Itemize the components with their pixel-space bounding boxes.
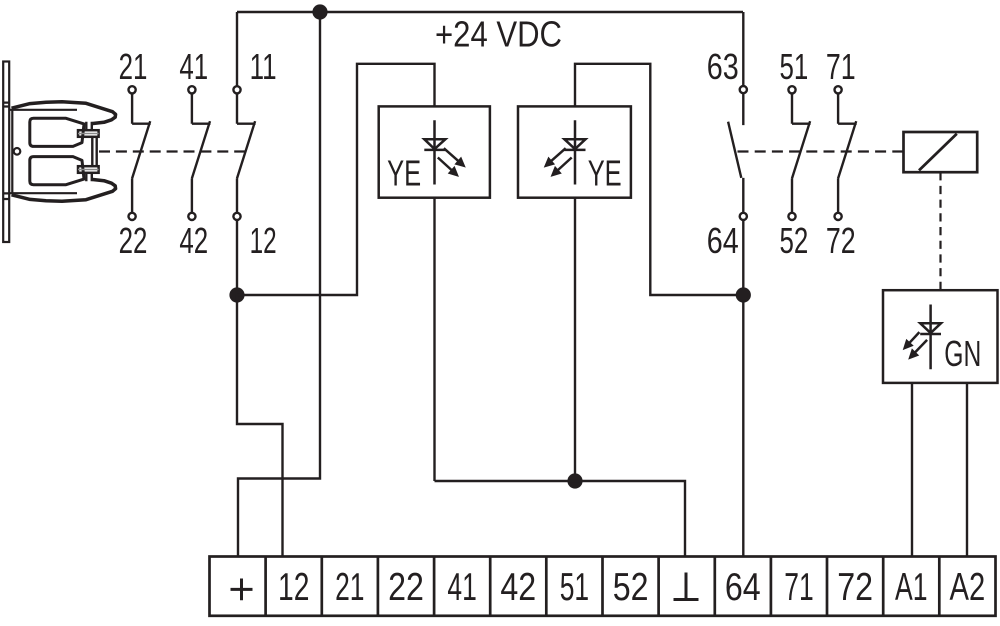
node below 64	[736, 287, 751, 302]
actuator mounting plate	[3, 62, 9, 243]
LED box YE2	[518, 106, 631, 197]
wire node to terminal 12	[237, 295, 283, 557]
contact 11-12	[233, 86, 255, 220]
wire contact 12 to node	[236, 220, 238, 295]
svg-text:42: 42	[179, 220, 208, 261]
node ground junction	[567, 473, 582, 488]
wire GN to terminal A2	[966, 383, 968, 557]
contact 63-64	[728, 86, 747, 220]
relay coil K1	[904, 132, 978, 172]
svg-text:64: 64	[725, 566, 761, 609]
actuator lower spool	[78, 166, 99, 173]
actuator hinge stems	[86, 122, 92, 181]
LED symbol YE2	[545, 120, 586, 184]
contact 51-52	[788, 86, 810, 220]
svg-text:64: 64	[707, 220, 739, 261]
actuator upper spool	[78, 130, 99, 137]
svg-text:42: 42	[500, 566, 536, 609]
svg-text:51: 51	[780, 46, 809, 87]
wire YE2 bottom to ground node	[574, 198, 576, 481]
svg-text:22: 22	[388, 566, 424, 609]
svg-text:+24 VDC: +24 VDC	[435, 13, 562, 54]
actuator bottom blade slot	[30, 157, 84, 185]
actuator top blade slot	[30, 118, 84, 146]
node junction top rail	[312, 4, 327, 19]
actuator fork outer contour top	[12, 102, 116, 124]
svg-text:52: 52	[613, 566, 649, 609]
wire YE2 top to node below 64	[575, 64, 743, 295]
wire contact 64 to terminal 64	[742, 220, 744, 557]
contact 41-42	[188, 86, 210, 220]
svg-text:YE: YE	[588, 152, 622, 193]
wire rail junction to terminal +	[238, 12, 320, 557]
LED box YE1	[379, 106, 490, 197]
svg-text:41: 41	[179, 46, 208, 87]
svg-text:71: 71	[784, 566, 813, 609]
LED symbol GN	[904, 305, 942, 370]
terminal +	[231, 579, 253, 601]
actuator fork outer contour bottom	[12, 180, 116, 202]
terminal strip	[210, 557, 996, 616]
wire +24VDC top rail	[237, 11, 743, 13]
LED symbol YE1	[424, 120, 465, 184]
svg-text:72: 72	[826, 220, 856, 261]
wire ground run to terminal GND	[435, 481, 686, 557]
actuator axle	[82, 137, 96, 166]
svg-text:72: 72	[837, 566, 873, 609]
LED box GN	[883, 290, 998, 383]
svg-text:A2: A2	[950, 566, 986, 609]
contact 71-72	[835, 86, 857, 220]
svg-text:11: 11	[250, 46, 277, 87]
dashed mechanical link left	[99, 150, 246, 152]
svg-text:71: 71	[826, 46, 856, 87]
dashed link coil to GN LED	[939, 172, 941, 290]
svg-text:GN: GN	[944, 333, 981, 374]
svg-text:63: 63	[707, 46, 739, 87]
svg-text:A1: A1	[895, 566, 928, 609]
svg-text:41: 41	[447, 566, 476, 609]
wire node to YE1 top	[237, 64, 435, 295]
svg-text:22: 22	[119, 220, 148, 261]
terminal GND	[674, 573, 699, 600]
svg-text:YE: YE	[387, 152, 421, 193]
wire rail to contact 11	[236, 12, 238, 86]
dashed mechanical link right	[738, 150, 904, 152]
svg-text:52: 52	[780, 220, 809, 261]
wire GN to terminal A1	[911, 383, 913, 557]
wire rail to contact 63	[742, 12, 744, 86]
contact 21-22	[129, 86, 151, 220]
node below 12	[229, 287, 244, 302]
svg-text:12: 12	[278, 566, 309, 609]
svg-text:12: 12	[250, 220, 277, 261]
actuator bracket	[9, 110, 77, 193]
svg-text:21: 21	[335, 566, 364, 609]
svg-text:21: 21	[119, 46, 148, 87]
wire YE1 bottom to ground run	[433, 198, 435, 481]
svg-text:51: 51	[560, 566, 589, 609]
